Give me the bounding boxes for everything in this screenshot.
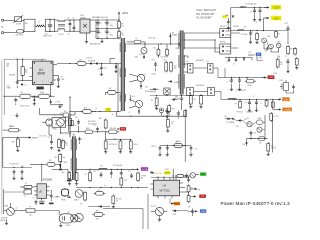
svg-text:R?: R? (55, 115, 57, 117)
svg-text:HH?2W: HH?2W (151, 92, 157, 94)
svg-text:R4? 1k: R4? 1k (134, 144, 139, 146)
svg-text:C9: C9 (247, 118, 249, 120)
resistor R81 (261, 99, 269, 108)
optocoupler U12 (151, 207, 167, 215)
svg-text:+310V: +310V (122, 13, 129, 15)
vert resistor center (166, 118, 174, 129)
label C1 04 (61, 157, 65, 159)
svg-text:R6?: R6? (280, 62, 283, 64)
T3 right winding (75, 139, 78, 171)
wire right col (276, 31, 288, 45)
resistor R24 (26, 207, 35, 217)
ground q40 (5, 220, 8, 225)
label right of purple (150, 172, 153, 174)
cap C30b (49, 190, 59, 204)
svg-text:R5?: R5? (125, 180, 128, 182)
left vert into -12 (218, 68, 225, 78)
diode D91 (237, 119, 243, 121)
relay oval K1 (42, 119, 52, 126)
svg-text:C?? 2200µ 16V: C?? 2200µ 16V (236, 90, 246, 92)
transistor Q10 (262, 36, 270, 42)
label red small (112, 114, 114, 116)
label BRDT ON (92, 17, 98, 19)
wire to green (195, 173, 198, 175)
svg-text:C3C: C3C (94, 124, 97, 126)
section box U1 (4, 59, 46, 115)
svg-text:PB: PB (198, 189, 200, 191)
note line1 (196, 8, 216, 12)
value label magamp (236, 119, 247, 128)
label 200V caps (100, 23, 113, 28)
wire x70 down (69, 132, 71, 138)
resistor R22 oval (61, 111, 75, 117)
svg-text:C4: C4 (144, 74, 146, 76)
svg-text:TH8W: TH8W (7, 87, 12, 89)
svg-text:AG250H: AG250H (43, 179, 53, 182)
note line3 (196, 16, 212, 20)
svg-text:2n: 2n (171, 124, 173, 126)
label C4S (20, 106, 30, 108)
cap C4S (13, 98, 17, 105)
svg-text:T3: T3 (70, 133, 72, 135)
label opto U7 (52, 115, 57, 130)
svg-text:L?: L? (226, 25, 228, 27)
svg-text:10k: 10k (25, 72, 28, 74)
diode under Q2 (138, 108, 140, 115)
value label center div (177, 141, 182, 143)
resistor R49b (61, 139, 68, 150)
resistor RG3 (112, 195, 122, 206)
netlabel red PSON (199, 195, 206, 199)
svg-text:#: # (223, 17, 224, 19)
diode D18 (52, 168, 65, 174)
svg-text:D3: D3 (187, 61, 189, 63)
cap CQ (33, 197, 38, 205)
svg-text:C?: C? (245, 103, 247, 105)
arrow -12V (262, 76, 267, 78)
wire 3.3 rail (225, 99, 277, 100)
svg-text:+2C0V 470µ 2C0V: +2C0V 470µ 2C0V (96, 17, 108, 19)
svg-text:2200µ: 2200µ (248, 85, 252, 87)
wire 3v3 row (69, 131, 85, 136)
svg-text:R6? 1k: R6? 1k (177, 141, 182, 143)
svg-text:1C: 1C (261, 103, 263, 105)
transistor Q3 (139, 44, 147, 56)
svg-text:CET TR?4L: CET TR?4L (15, 35, 23, 37)
label AG250H (43, 179, 53, 182)
resistor R3C (164, 60, 168, 73)
wire -12 rail (225, 77, 264, 78)
svg-text:R4a: R4a (25, 70, 28, 72)
svg-text:C3C: C3C (152, 59, 155, 61)
label 400V caps2 (100, 32, 113, 37)
transistor Q40 (5, 206, 15, 216)
svg-text:+C9#: +C9# (253, 133, 257, 135)
diode D7 under Q3 (143, 54, 145, 59)
left vres RF0 (75, 171, 78, 182)
resistor R5x low (55, 153, 62, 163)
svg-text:+5V: +5V (274, 16, 279, 20)
section border outer (1, 59, 3, 214)
cap C30m (152, 59, 157, 75)
wire link up (74, 112, 76, 116)
svg-text:470µ: 470µ (110, 35, 113, 37)
svg-text:R?: R? (25, 183, 27, 185)
svg-text:PS1: PS1 (259, 56, 262, 58)
T3 left winding (70, 139, 73, 171)
ground R49 (16, 148, 19, 152)
wire r24 out (14, 211, 59, 216)
wire rg row (88, 205, 115, 208)
IC U4 WT7510 (154, 180, 180, 196)
label 3.3 texts (237, 112, 254, 114)
resistor RF3 (120, 177, 127, 187)
wire y138 row (247, 138, 268, 139)
value label t3 (70, 133, 72, 135)
svg-text:C9? C9?: C9? C9? (151, 206, 157, 208)
svg-text:C43: C43 (145, 87, 148, 89)
svg-text:+R4?: +R4? (277, 41, 281, 43)
value label u1 sec (86, 58, 92, 60)
svg-text:+C1?: +C1? (67, 211, 71, 213)
svg-text:R4C 2.2k 1%: R4C 2.2k 1% (109, 144, 118, 146)
svg-text:D8 1N4148: D8 1N4148 (88, 61, 95, 63)
ground DB1 (85, 33, 88, 43)
cap C82 (255, 100, 258, 112)
svg-text:-7V: -7V (67, 17, 69, 19)
dual diode box D31 (187, 61, 194, 73)
svg-text:C??: C?? (128, 171, 131, 173)
pack D33 out wire (194, 92, 222, 100)
U5 ground bar (39, 198, 45, 204)
wire 12V rail (231, 7, 267, 31)
resistor R67 (294, 47, 297, 56)
U4 top rail (151, 177, 189, 178)
svg-text:R5? 470: R5? 470 (116, 199, 121, 201)
wire 5V branch (263, 18, 267, 31)
svg-text:C2? 2n2: C2? 2n2 (72, 125, 77, 127)
resistor R15 (37, 91, 52, 98)
svg-text:L1: L1 (38, 21, 40, 23)
svg-text:C4: C4 (98, 170, 100, 172)
svg-text:1R?: 1R? (174, 66, 177, 68)
svg-text:1500µ 6.3V: 1500µ 6.3V (246, 112, 253, 114)
label 1N4148 (226, 122, 234, 124)
netlabel red 3v3 (117, 127, 126, 132)
wire PSON out (183, 192, 196, 198)
diode DG (98, 205, 102, 207)
common-mode choke L2 bottom (58, 29, 70, 32)
svg-text:5VSB: 5VSB (165, 173, 171, 175)
svg-text:SBL3040PT: SBL3040PT (196, 60, 204, 62)
wire r5sb row (30, 164, 61, 182)
svg-text:CY2: CY2 (7, 85, 10, 87)
T2 to packs wires (184, 33, 220, 52)
transistor Q1 (129, 74, 145, 82)
bulk capacitor C5 (95, 20, 99, 29)
resistor R72 (275, 30, 280, 39)
svg-text:LP-1B5T: LP-1B5T (174, 82, 180, 84)
cap C90 (248, 131, 252, 139)
cap C72 (285, 23, 290, 36)
wire bottom rail (96, 20, 119, 39)
cap C91 (152, 146, 162, 157)
value label R17 row (88, 61, 95, 63)
resistor RU5 (67, 171, 74, 181)
svg-text:C4: C4 (25, 85, 27, 87)
svg-text:C3B 10R: C3B 10R (9, 74, 16, 76)
svg-text:75k: 75k (121, 35, 124, 37)
value label T2 packs2 (196, 85, 204, 87)
vertical x70 (69, 97, 70, 130)
left small caps col (225, 18, 230, 31)
resistor R56 (189, 94, 195, 108)
U4 pins right (180, 183, 184, 192)
aux FET Q5 (176, 43, 184, 50)
transformer T1 core (121, 38, 125, 111)
svg-text:SB1867: SB1867 (32, 138, 38, 140)
svg-text:C3?: C3? (48, 137, 51, 139)
inductor L10 (99, 165, 107, 169)
svg-text:39k: 39k (65, 145, 68, 147)
title text (221, 201, 291, 206)
value label CY (58, 34, 64, 36)
svg-text:R1? 1k: R1? 1k (152, 146, 157, 148)
U1 to row wire (50, 85, 55, 97)
rect diode pack D2 (220, 42, 231, 54)
netlabel blue SB (256, 53, 261, 56)
chain to 3.3vsb (271, 100, 274, 110)
optocoupler U8 (61, 189, 69, 202)
resistor RH1 (92, 211, 105, 221)
svg-text:4.7? 1%: 4.7? 1% (274, 116, 280, 118)
U1 pin numbers (36, 81, 49, 83)
label AND 68RT-RN (90, 43, 101, 46)
svg-text:470µ: 470µ (110, 25, 113, 27)
resistor R42 (129, 140, 138, 154)
wire R14 to x70 (32, 96, 39, 98)
svg-text:C3? 1n 1kV: C3? 1n 1kV (39, 136, 46, 138)
svg-text:R4? 1M: R4? 1M (10, 126, 16, 128)
label C3A (6, 63, 9, 68)
diode D43 (145, 87, 159, 91)
ground C33 (51, 105, 63, 108)
transformer T2 left winding (178, 33, 181, 88)
label FB1 PG (278, 56, 281, 60)
cap CB1 (12, 170, 15, 180)
svg-text:L?: L? (253, 96, 255, 98)
value label Q3 (135, 57, 139, 59)
resistor R80 (235, 100, 242, 109)
ground bulk (100, 39, 103, 43)
U1 bottom component (37, 87, 44, 89)
box RB2 (24, 188, 32, 194)
wire 5V rail (231, 30, 276, 47)
svg-text:R?? 47µF: R?? 47µF (237, 112, 243, 114)
label CX4 (43, 33, 52, 37)
bridge box BX (164, 88, 170, 94)
cap CU1 (186, 175, 191, 183)
wire y111 mid (92, 111, 119, 112)
cap low2 (176, 111, 180, 119)
note line2 (196, 12, 215, 16)
U1 pin top (41, 59, 43, 61)
svg-text:R2: R2 (154, 48, 156, 50)
bleeder resistor R3 (118, 20, 124, 29)
svg-text:75k: 75k (121, 26, 124, 28)
label 5VA red (225, 14, 229, 17)
netlabel orange 3V3 (282, 98, 289, 102)
row y145 (160, 145, 191, 146)
svg-text:C?: C? (250, 12, 252, 14)
Q cluster wires (264, 40, 279, 52)
wire t3 left tap (64, 170, 72, 180)
svg-text:+: + (110, 23, 111, 25)
cap C80 (286, 85, 295, 94)
svg-text:C945: C945 (135, 57, 139, 59)
arrow 3.3VSB (273, 108, 281, 110)
wire aux drops (158, 44, 167, 58)
cap C93 (189, 146, 197, 157)
svg-text:PC?17: PC?17 (60, 113, 65, 115)
resistor R48 (3, 126, 21, 132)
label GB TYPE yellow (155, 173, 163, 175)
AC input terminal N (1, 31, 16, 33)
svg-text:C5: C5 (100, 23, 102, 25)
diode D8a (88, 62, 96, 64)
resistor R38 (83, 128, 95, 134)
junction star (232, 15, 234, 17)
label C_R50 (9, 164, 24, 168)
svg-text:+C4?: +C4? (285, 23, 289, 25)
resistor RF4 (137, 172, 147, 183)
svg-text:SY?B: SY?B (173, 214, 177, 216)
svg-text:FAN: FAN (201, 173, 205, 176)
aux resistor R1M (154, 48, 160, 57)
transistor QS (190, 173, 195, 178)
svg-text:C?? SB?: C?? SB? (141, 176, 147, 178)
svg-text:R38: R38 (86, 128, 89, 130)
label C3B (9, 74, 16, 76)
svg-text:C?? 2200µ: C?? 2200µ (241, 34, 248, 36)
resistor above bus (168, 104, 175, 116)
svg-text:R4B (.?: R4B (.? (75, 200, 80, 202)
svg-text:FB1: FB1 (278, 56, 281, 58)
diode D55 (172, 98, 178, 100)
cap C12 (16, 80, 19, 88)
svg-text:SBL?40: SBL?40 (220, 26, 226, 28)
dual diode box D33 (187, 88, 194, 96)
resistor R26 (65, 117, 72, 132)
cap C66 (253, 8, 256, 22)
resistor R49 (12, 138, 19, 149)
pack outputs right (231, 33, 240, 48)
resistor R85 (267, 142, 277, 153)
value label aux (148, 38, 155, 40)
arrow +5V (265, 17, 270, 19)
svg-text:GB TYPE: GB TYPE (155, 173, 163, 175)
diode D8b (96, 62, 121, 64)
svg-text:B?: B? (16, 208, 18, 210)
cap C76 (238, 78, 241, 91)
svg-text:C8 2n2 1kV: C8 2n2 1kV (148, 38, 155, 40)
svg-text:C1?04: C1?04 (61, 157, 65, 159)
opto U7 wires (49, 114, 73, 132)
U5 pins left (34, 187, 37, 195)
vert element top (167, 110, 170, 120)
svg-text:C?? (2N? 1%): C?? (2N? 1%) (9, 164, 19, 166)
cap low1 (165, 108, 168, 118)
svg-text:R?: R? (244, 27, 246, 29)
wire mid 3v3 (98, 131, 109, 132)
svg-text:C?: C? (33, 197, 35, 199)
label LP-180T (168, 80, 180, 84)
svg-text:?µ8: ?µ8 (25, 23, 28, 25)
cap C55 (179, 94, 183, 110)
vertical right bus (272, 115, 274, 153)
svg-text:CX4: CX4 (45, 33, 48, 35)
value label sb row (39, 136, 46, 138)
svg-text:D882: D882 (5, 206, 9, 208)
dual diode box D34 (208, 88, 215, 96)
left bus low (2, 138, 5, 215)
svg-text:PU1: PU1 (259, 58, 262, 60)
svg-text:C2?: C2? (171, 122, 174, 124)
transformer T2 right winding (183, 33, 186, 88)
svg-text:R?: R? (30, 207, 32, 209)
svg-text:C?: C? (82, 138, 84, 140)
cap C30r (94, 124, 99, 132)
inductor L33 (228, 98, 236, 99)
svg-text:R5C: R5C (172, 109, 175, 111)
U1 pins right (53, 65, 57, 81)
svg-text:+12V: +12V (273, 6, 280, 10)
label DB1 RS406 (81, 15, 86, 19)
resistor R71 (251, 32, 259, 44)
svg-text:R??: R?? (25, 190, 28, 192)
IC U5 (37, 184, 47, 199)
wire fb down (257, 56, 263, 61)
svg-text:4C51: 4C51 (139, 54, 143, 56)
wire forest bottom (76, 187, 148, 188)
small rc pair (175, 174, 190, 179)
svg-text:+D1B R5B: +D1B R5B (1, 218, 8, 220)
svg-text:+R17: +R17 (79, 60, 83, 62)
transformer T1 left winding (119, 43, 122, 101)
X-capacitor CX4 box (45, 19, 54, 32)
netlabel orange PSON2 (170, 199, 180, 206)
svg-text:2N2: 2N2 (176, 48, 179, 50)
svg-text:4C5: 4C5 (132, 96, 135, 98)
cap C92 (166, 146, 169, 157)
wire top to ic (3, 167, 32, 168)
svg-text:C5? 470: C5? 470 (161, 57, 167, 59)
svg-text:1N4948: 1N4948 (172, 34, 177, 36)
svg-text:R8?: R8? (236, 126, 239, 128)
label 5V texts (226, 25, 246, 28)
svg-text:R?: R? (21, 92, 23, 94)
arrow into magamp (232, 118, 234, 120)
value label 3v3 row (253, 96, 255, 98)
svg-text:P-0N: P-0N (280, 80, 283, 82)
resistor R66 (287, 45, 296, 55)
cap q1 (265, 47, 269, 53)
cap C1A (57, 75, 60, 88)
svg-text:1N?: 1N? (6, 66, 9, 68)
svg-text:F12C20C: F12C20C (233, 26, 239, 28)
svg-text:P-0N: P-0N (274, 73, 277, 75)
label fet (280, 97, 289, 100)
